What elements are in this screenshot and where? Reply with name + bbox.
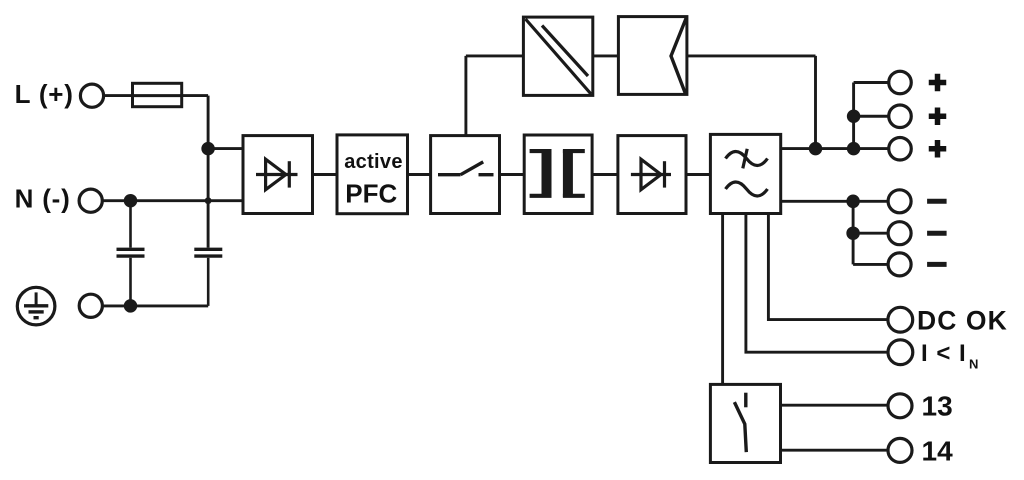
wire fuse to corner bbox=[182, 94, 208, 97]
minus sign 2 bbox=[927, 231, 947, 236]
switch block U3 bbox=[431, 136, 500, 214]
feedback block U5 bbox=[618, 17, 687, 95]
wire contact 14 bbox=[781, 449, 889, 452]
diode D2 bbox=[631, 159, 671, 190]
relay block K1 bbox=[710, 384, 780, 462]
minus sign 1 bbox=[927, 199, 947, 204]
switch S1 bbox=[438, 162, 494, 175]
wire I<IN bbox=[746, 214, 888, 353]
wire to rectifier input 1 bbox=[208, 147, 243, 150]
relay contact bbox=[734, 393, 746, 452]
junction minus bus bbox=[848, 196, 859, 207]
svg-text:DC OK: DC OK bbox=[917, 306, 1008, 336]
node L(+) label bbox=[15, 79, 74, 109]
junction plus bus bbox=[848, 143, 859, 154]
junction feedback-plus bbox=[810, 143, 821, 154]
terminal 13 bbox=[888, 394, 912, 418]
capacitor C2 bbox=[194, 249, 222, 306]
wire stub plus mid bbox=[854, 115, 889, 118]
label PFC bbox=[345, 179, 397, 209]
wire ground bus bbox=[102, 304, 208, 307]
tilde top with slash bbox=[726, 149, 768, 169]
svg-text:N: N bbox=[969, 357, 978, 372]
wire relay feed bbox=[721, 214, 724, 385]
junction plus mid bbox=[848, 111, 859, 122]
wire contact 13 bbox=[781, 404, 889, 407]
terminal L(+) bbox=[80, 84, 103, 107]
chevron bbox=[671, 18, 686, 93]
diagonal 1 bbox=[526, 19, 592, 94]
rectifier block U1 bbox=[243, 136, 313, 214]
wire minus output bbox=[781, 200, 888, 203]
wire PFC to switch bbox=[408, 173, 431, 176]
terminal minus3 bbox=[888, 253, 911, 276]
label I<IN bbox=[921, 340, 978, 372]
transformer core symbol bbox=[530, 150, 585, 197]
terminal plus2 bbox=[889, 105, 912, 128]
junction ground-cap1 bbox=[125, 301, 136, 312]
terminal DC OK bbox=[888, 307, 913, 332]
minus sign 3 bbox=[927, 262, 947, 267]
PFC block U2 bbox=[337, 135, 408, 214]
label DC OK bbox=[917, 306, 1008, 336]
svg-text:PFC: PFC bbox=[345, 179, 397, 209]
wire feedback right vertical bbox=[814, 56, 817, 149]
terminal minus1 bbox=[888, 190, 911, 213]
plus sign 1 bbox=[929, 74, 947, 92]
terminal N(-) bbox=[79, 189, 102, 212]
junction minus mid bbox=[848, 228, 859, 239]
label 13 bbox=[922, 391, 953, 422]
wire diode to filter bbox=[686, 173, 710, 176]
label active bbox=[344, 151, 403, 173]
wire plus bus vertical bbox=[852, 83, 855, 149]
wire stub minus bottom bbox=[853, 263, 888, 266]
wire L vertical bbox=[207, 96, 210, 248]
terminal PE bbox=[79, 294, 102, 317]
junction crossover blob bbox=[205, 197, 212, 204]
svg-text:14: 14 bbox=[922, 435, 954, 466]
junction N-cap1 bbox=[125, 195, 136, 206]
terminal 14 bbox=[888, 438, 912, 462]
label 14 bbox=[922, 435, 954, 466]
terminal plus1 bbox=[889, 71, 912, 94]
wire minus bus vertical bbox=[852, 201, 855, 264]
capacitor C1 bbox=[117, 201, 145, 306]
wire rectifier to PFC bbox=[313, 173, 338, 176]
wire U5 to right corner bbox=[687, 54, 816, 57]
svg-text:active: active bbox=[344, 151, 403, 173]
wire L to fuse bbox=[104, 94, 133, 97]
junction L-rectifier bbox=[203, 143, 214, 154]
wire stub minus mid bbox=[853, 232, 888, 235]
wire switch to transformer bbox=[500, 173, 525, 176]
diode block U6 bbox=[618, 136, 686, 214]
filter block U7 bbox=[710, 134, 780, 213]
diagonal 2 bbox=[542, 26, 588, 77]
fuse F1 bbox=[133, 83, 182, 106]
wire stub plus top bbox=[854, 81, 889, 84]
converter block U4 bbox=[523, 17, 592, 95]
terminal plus3 bbox=[889, 138, 912, 161]
transformer T1 block bbox=[524, 135, 592, 214]
wire plus output bbox=[781, 147, 889, 150]
svg-text:N (-): N (-) bbox=[15, 184, 71, 214]
svg-text:I < I: I < I bbox=[921, 340, 967, 367]
node N(-) label bbox=[15, 184, 71, 214]
wire U4 to U5 bbox=[593, 54, 619, 57]
tilde bottom bbox=[726, 182, 768, 196]
wire switch top feedback bbox=[464, 56, 467, 136]
diode D1 bbox=[256, 159, 298, 190]
plus sign 3 bbox=[929, 140, 947, 158]
terminal I<IN bbox=[888, 340, 913, 365]
svg-text:L (+): L (+) bbox=[15, 79, 74, 109]
wire N to rectifier input 2 bbox=[102, 199, 243, 202]
svg-text:13: 13 bbox=[922, 391, 953, 422]
ground earth symbol bbox=[17, 287, 55, 325]
wire transformer to diode block bbox=[592, 173, 618, 176]
plus sign 2 bbox=[929, 108, 947, 126]
wire feedback horizontal left bbox=[466, 54, 524, 57]
terminal minus2 bbox=[888, 222, 911, 245]
wire DC OK bbox=[768, 214, 888, 320]
